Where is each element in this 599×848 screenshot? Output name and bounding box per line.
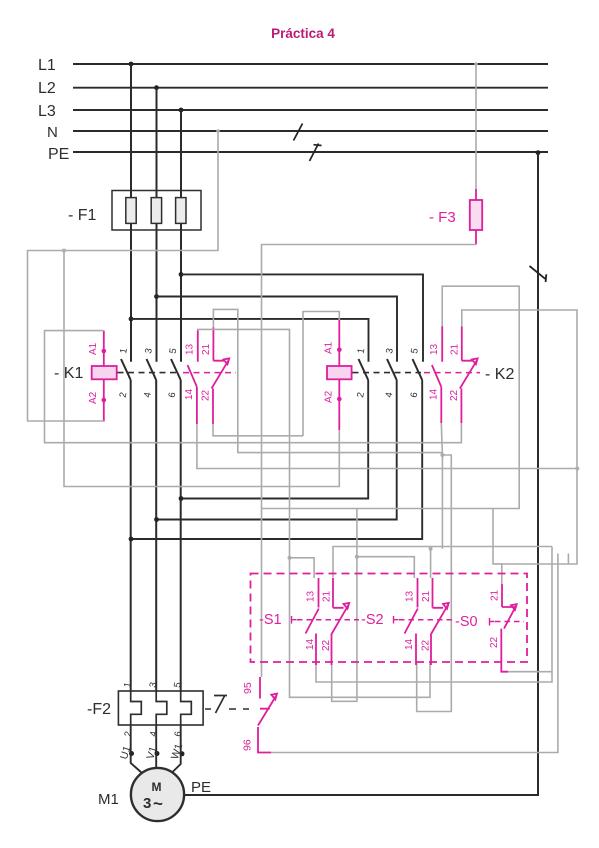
S2 linkage dashed [399,619,455,621]
svg-text:-F2: -F2 [87,701,111,718]
contactor K1 main contact 5-6 blade [171,359,181,380]
wire S0 22 loop gray [508,547,552,672]
label K1 A1 [88,342,99,355]
wire L2 bus [73,87,548,89]
node L3 tap [179,108,184,113]
wire 96 riser gray [271,554,558,753]
pushbutton S2 contact 21-22 NC [431,578,449,658]
K1 aux contact 13-14 [188,330,198,424]
title Práctica 4 [271,26,335,41]
node motor W1 [180,751,185,756]
node S1 13 branch [288,556,292,560]
wire K2 13 down gray [441,423,442,455]
label K2 pin 5 [409,347,421,354]
label S1 pin 13 [306,590,317,602]
svg-text:-S0: -S0 [455,614,478,630]
svg-text:L1: L1 [38,57,56,74]
label K1 pin 6 [167,391,179,398]
K2 aux contact 13-14 [432,326,442,423]
node phase2 return [154,517,159,522]
break mark on PE [310,144,322,162]
node PE tap [536,150,541,155]
label F2 pin 4 [148,730,160,737]
svg-text:A2: A2 [88,391,99,404]
node K2 21 column junction [575,467,579,471]
svg-text:13: 13 [429,343,440,355]
label K1 [54,365,83,382]
K1 aux linkage dashed pink [183,372,236,374]
label S2 [361,612,384,628]
svg-text:22: 22 [449,389,460,401]
pushbutton S1 contact 21-22 NC [331,578,349,658]
wire L3 to K2 contact 5 [181,274,423,361]
node phase1 return [129,537,134,542]
svg-text:13: 13 [306,590,317,602]
wire F3 to control column gray [262,245,477,678]
wire K2 21 up over to right column gray [462,310,577,584]
S0 linkage dashed [495,621,524,623]
S1 14 stub pink [315,658,317,665]
svg-text:22: 22 [321,639,332,651]
node K2 A2 [337,397,342,402]
wire L1 bus [73,63,548,65]
svg-text:21: 21 [201,343,212,355]
label 3 phase [143,794,163,813]
label K1 A2 [88,391,99,404]
label K2 pin 2 [355,391,367,398]
label V1 [144,745,159,761]
wire K1 A1 to K2 22 gray [45,331,462,443]
svg-text:~: ~ [153,794,163,813]
svg-text:95: 95 [242,682,254,694]
node L1 tap [129,62,134,67]
S1 actuator tick [292,616,297,624]
svg-text:PE: PE [191,779,211,796]
fuse F3 [470,189,482,245]
svg-text:- F3: - F3 [429,209,456,226]
svg-text:N: N [47,124,58,141]
svg-text:- F1: - F1 [68,207,97,224]
svg-text:21: 21 [450,343,461,355]
label K1 pin 3 [143,347,155,354]
wire L1 tap to F3 gray [474,62,478,189]
svg-text:M1: M1 [98,791,119,808]
wire K2 A1 pink lead [338,320,340,366]
svg-text:L2: L2 [38,80,56,97]
label K2 pin 1 [356,347,368,354]
wire phase 2 vertical top [156,88,158,362]
K2 linkage dashed [353,372,422,374]
label pin 95 [242,682,254,694]
wire branch to S2 22 gray [290,558,431,698]
wire motor lead 3 [172,725,181,773]
node K1 A1 [102,349,107,354]
S0 actuator tick [490,618,495,626]
svg-text:L3: L3 [38,103,56,120]
wire node to S2 21 gray [429,455,443,578]
svg-text:14: 14 [184,388,195,400]
label S0 pin 22 [489,636,500,648]
wire L2 to K2 contact 3 [157,297,398,362]
wire 96 chain gray [333,547,552,578]
wire phase 1 vertical top [130,64,132,362]
label S0 pin 21 [490,589,501,601]
wire PE vertical [185,153,539,795]
wire K2 out 2 to phase 3 [181,380,368,499]
wire K1 13 to S1 13 gray [198,329,290,557]
svg-text:14: 14 [429,388,440,400]
F2 element 3 [181,691,192,725]
svg-text:Práctica 4: Práctica 4 [271,26,335,41]
svg-text:3: 3 [143,795,151,812]
node phase3 return [179,496,184,501]
label S2 pin 21 [421,590,432,602]
label PE motor [191,779,211,796]
S2 14 stub pink [415,658,417,665]
contactor K2 coil [327,366,352,379]
label F2 pin 1 [122,681,134,688]
node K1 A2 [102,398,107,403]
wire N bus [73,130,548,132]
label U1 [118,744,134,761]
contactor K2 main contact 1-2 blade [359,359,369,380]
label K2 pin 22 [449,389,460,401]
label K1 pin 1 [118,347,130,354]
svg-text:A1: A1 [324,341,335,354]
F2 trip linkage [205,708,249,710]
fuse F1 element 1 [126,198,136,224]
wire K2 A1 gray [303,312,339,437]
label S0 [455,614,478,630]
svg-text:-S1: -S1 [259,612,282,628]
svg-text:21: 21 [490,589,501,601]
K2 aux linkage dashed pink [424,372,480,374]
wire PE bus [73,151,548,153]
S1 linkage dashed [297,619,359,621]
wire phase 3 vertical top [180,110,182,362]
label K2 [485,366,514,383]
label PE [48,146,69,163]
svg-text:A1: A1 [88,342,99,355]
wire phase 1 vertical bottom [130,380,132,691]
F2 element 2 [156,691,167,725]
svg-text:14: 14 [305,638,316,650]
pushbutton S0 contact 21-22 NC [501,584,516,672]
wire phase 3 vertical bottom [180,380,182,691]
wire S0 21 feed stub gray [493,509,502,564]
wire motor lead 2 [155,725,157,768]
K2 aux contact 21-22 NC [460,327,478,424]
label F2 pin 2 [123,730,135,737]
wire K1 A2 pink lead [103,379,105,421]
wire K1 22 to K2 A1 gray [213,424,303,436]
S2 22 stub pink [430,658,432,665]
S1 22 stub pink [331,658,333,665]
contactor K1 main contact 3-4 blade [147,359,157,380]
node K2 feed tap 3 [179,272,184,277]
wire S1 14 loop gray [316,663,552,682]
node K2 A1 [337,348,342,353]
node S2 13 branch [355,555,359,559]
label L2 [38,80,56,97]
wire K1 14 to K2 21 gray [197,424,577,469]
label S1 pin 14 [305,638,316,650]
svg-text:13: 13 [185,343,196,355]
label F3 [429,209,456,226]
svg-text:A2: A2 [324,390,335,403]
F2 element 1 [131,691,142,725]
label K1 pin 21 [201,343,212,355]
svg-text:21: 21 [322,590,333,602]
wire K2 out 6 to phase 1 [131,380,422,539]
wire K2 out 4 to phase 2 [157,380,397,520]
label K1 pin 14 [184,388,195,400]
wire motor lead 1 [131,725,143,774]
svg-text:22: 22 [201,389,212,401]
pushbutton S1 contact 13-14 [306,578,319,658]
label N [47,124,58,141]
label S1 pin 22 [321,639,332,651]
fuse F1 element 2 [151,198,161,224]
label F2 pin 6 [173,730,185,737]
S2 actuator tick [394,616,399,624]
node K2 feed tap 2 [154,294,159,299]
label K2 pin 14 [429,388,440,400]
label S2 pin 22 [421,639,432,651]
svg-text:- K1: - K1 [54,365,83,382]
label pin 96 [242,739,254,751]
label K2 A1 [324,341,335,354]
break mark on N [294,124,303,141]
wire N drop gray [28,129,220,421]
label L3 [38,103,56,120]
label S2 pin 13 [405,590,416,602]
wire L3 bus [73,109,548,111]
wire K2 13 top loop gray [261,286,519,557]
node N branch [62,249,66,253]
wire node to S2 14 gray [417,455,452,712]
contactor K1 coil [92,366,117,379]
label S1 [259,612,282,628]
svg-text:13: 13 [405,590,416,602]
fuse F1 box [112,191,201,231]
node motor V1 [155,751,160,756]
contactor K2 main contact 5-6 blade [413,359,423,380]
label K1 pin 4 [142,391,154,398]
label M [152,780,162,794]
svg-text:21: 21 [421,590,432,602]
F2 95-96 contact pink [258,677,277,753]
wire right column stub gray [567,554,569,565]
wire phase 2 vertical bottom [155,380,157,691]
wire branch to S2 13 gray [357,557,414,578]
wire S1 22 loop gray [332,557,357,702]
break mark on PE vertical [530,266,547,282]
label K2 pin 3 [384,347,396,354]
K1 linkage dashed [118,372,181,374]
svg-text:-S2: -S2 [361,612,384,628]
label F2 [87,701,111,718]
label L1 [38,57,56,74]
label F2 pin 3 [148,681,160,688]
svg-text:M: M [152,780,162,794]
label K2 pin 6 [409,391,421,398]
motor M1 [131,768,184,821]
label F1 [68,207,97,224]
label M1 [98,791,119,808]
svg-text:14: 14 [404,638,415,650]
label S1 pin 21 [322,590,333,602]
label F2 pin 5 [172,681,184,688]
wire K2 A2 pink lead [338,379,340,430]
label K1 pin 5 [168,347,180,354]
svg-text:22: 22 [421,639,432,651]
label K1 pin 2 [118,391,130,398]
wire N branch to K2 A2 gray [64,251,339,487]
wire K1 21 to interlock node gray [213,309,442,452]
wire L1 to K2 contact 1 [131,319,369,362]
label K2 pin 21 [450,343,461,355]
label K1 pin 22 [201,389,212,401]
svg-text:PE: PE [48,146,69,163]
label K2 pin 13 [429,343,440,355]
svg-text:22: 22 [489,636,500,648]
label K2 A2 [324,390,335,403]
svg-text:- K2: - K2 [485,366,514,383]
node K2 feed tap 1 [129,317,134,322]
pushbutton box dashed [251,574,528,663]
fuse F1 element 3 [176,198,186,224]
K1 aux contact 21-22 NC [212,327,230,424]
wire K1 A1 pink lead [103,331,105,366]
overload relay F2 box [118,691,203,725]
node L2 tap [154,85,159,90]
contactor K2 main contact 3-4 blade [387,359,397,380]
label K1 pin 13 [185,343,196,355]
svg-text:96: 96 [242,739,254,751]
node K2 13 junction [440,453,444,457]
node motor U1 [129,751,134,756]
pushbutton S2 contact 13-14 [405,578,418,658]
wire branch to S1 13 [290,558,315,578]
label K2 pin 4 [384,391,396,398]
F2 trip symbol [214,696,227,714]
label S2 pin 14 [404,638,415,650]
contactor K1 main contact 1-2 blade [121,359,131,380]
label W1 [169,742,185,761]
